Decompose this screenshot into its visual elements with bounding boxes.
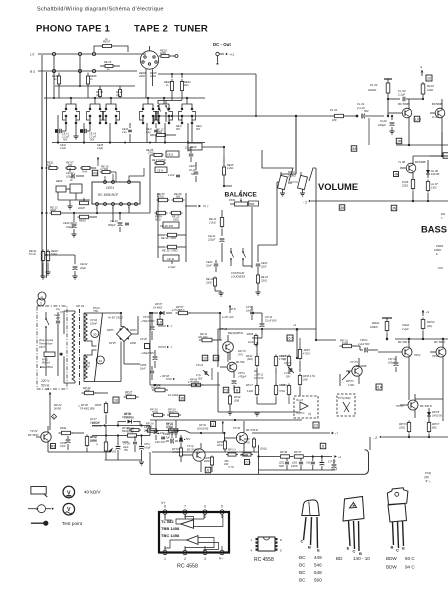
wire CE01 pin top3 <box>129 168 144 182</box>
wire bal node <box>223 185 232 187</box>
svg-text:P½0⁅: P½0⁅ <box>425 471 432 475</box>
switch S5 bracket <box>156 112 173 121</box>
svg-text:JR: JR <box>397 139 402 143</box>
node sel bus b <box>181 115 183 117</box>
svg-text:DR½5: DR½5 <box>432 410 440 414</box>
wire L2 drop <box>79 56 81 86</box>
transistor TRA2 BC560B <box>378 339 421 366</box>
label PW04 bottom <box>424 471 432 483</box>
svg-text:140 - 10: 140 - 10 <box>353 556 370 561</box>
svg-text:BC 546B: BC 546B <box>356 364 367 368</box>
svg-text:220Ω: 220Ω <box>149 75 156 78</box>
switch S5 pole A <box>158 104 164 124</box>
svg-text:CE01: CE01 <box>106 186 114 190</box>
legend DC voltmeter <box>63 486 75 498</box>
resistor PL01 <box>330 108 348 122</box>
svg-text:1300: 1300 <box>431 186 437 189</box>
capacitor CE23 <box>205 252 222 272</box>
svg-text:100kΩ: 100kΩ <box>125 393 132 396</box>
legend callout rect <box>31 487 47 498</box>
BD140 leg E <box>347 521 350 551</box>
resistor RRA2 <box>370 318 389 339</box>
capacitor CE1x <box>155 167 167 173</box>
svg-text:CE13: CE13 <box>122 128 129 131</box>
svg-text:TL 06: TL 06 <box>398 160 406 164</box>
wire vol left branch <box>258 182 279 245</box>
resistor RP13 <box>274 355 286 375</box>
arrow supply nl <box>420 65 423 76</box>
svg-text:50M: 50M <box>279 465 284 468</box>
IC bottom pins <box>163 546 224 555</box>
ground matrix <box>73 123 78 139</box>
node R1 <box>52 69 55 72</box>
wire mid col joins <box>252 338 276 404</box>
dashed drift box <box>337 394 355 416</box>
capacitor CP03 <box>83 361 91 368</box>
resistor RE43 <box>180 73 191 100</box>
node rail145 a <box>408 144 410 146</box>
wire selector stub <box>153 116 155 122</box>
wire pot wiper right <box>309 168 316 181</box>
connector BU1 DIN <box>140 46 158 98</box>
svg-text:TBB 1458: TBB 1458 <box>161 526 180 531</box>
resistor RE26 <box>86 73 97 98</box>
svg-text:VOLUME: VOLUME <box>318 181 358 192</box>
svg-text:2V½: 2V½ <box>237 352 243 356</box>
svg-text:P½½(1300): P½½(1300) <box>338 396 351 400</box>
svg-text:1N 4002: 1N 4002 <box>153 306 163 309</box>
label DP32 <box>166 429 178 435</box>
BDW leg C <box>396 522 399 553</box>
capacitor CP07 <box>250 306 254 320</box>
resistor RP26 56k <box>120 426 150 437</box>
TO92 leg B <box>308 517 311 550</box>
svg-text:10: 10 <box>427 76 431 80</box>
svg-text:RC 4558: RC 4558 <box>254 557 274 563</box>
arrow -7a <box>158 325 173 329</box>
diode 1N4002 <box>168 394 185 401</box>
resistor RP37 <box>294 450 303 458</box>
label fuse type <box>40 365 53 369</box>
label RE18 <box>149 71 157 78</box>
node reg rail a <box>154 384 156 386</box>
resistor RRA4 <box>398 421 411 438</box>
transistor TP11 <box>220 327 244 360</box>
svg-text:NF: NF <box>191 173 195 176</box>
node L3 <box>92 52 95 55</box>
svg-text:(1N½1½B): (1N½1½B) <box>166 431 178 435</box>
resistor RP31 <box>165 421 180 432</box>
svg-text:4× BY 251/2: 4× BY 251/2 <box>108 316 123 320</box>
label DP34x <box>230 308 237 311</box>
title PHONO <box>36 23 73 34</box>
svg-text:CE10 (BLK): CE10 (BLK) <box>63 221 77 225</box>
svg-text:BC 5½6 B: BC 5½6 B <box>187 447 199 451</box>
wire right angle <box>255 74 257 116</box>
label sw6 values <box>196 125 203 131</box>
wire volume feed <box>295 115 297 174</box>
svg-text:L8: L8 <box>158 320 162 324</box>
arrow rp08 <box>166 378 178 382</box>
capacitor CP37 <box>328 459 338 472</box>
box JRb <box>205 467 211 473</box>
resistor RP34x <box>167 407 181 416</box>
svg-text:△ DP 12: △ DP 12 <box>253 373 264 376</box>
transistor TP31 <box>182 443 205 472</box>
switch S3 feed <box>110 97 112 104</box>
box L8 <box>157 313 163 325</box>
wire sec top out <box>97 312 125 327</box>
pot PA02 left <box>278 172 288 196</box>
svg-text:RE03: RE03 <box>79 219 86 223</box>
node reg rail b <box>195 384 197 386</box>
svg-text:1: 1 <box>164 557 166 561</box>
resistor RE14 <box>45 206 80 215</box>
svg-text:RP1½: RP1½ <box>281 354 288 358</box>
resistor RE08 <box>80 166 96 169</box>
svg-text:C P 37: C P 37 <box>328 460 336 464</box>
svg-text:34: 34 <box>99 359 103 363</box>
svg-text:10nF: 10nF <box>140 367 146 370</box>
svg-text:546: 546 <box>314 563 322 568</box>
diode DL06 <box>426 166 440 178</box>
svg-text:+100µF 50V: +100µF 50V <box>141 352 155 355</box>
capacitor 6201a <box>279 458 289 470</box>
box 43 <box>211 421 225 433</box>
svg-text:- 2: - 2 <box>373 436 377 440</box>
svg-text:■GL250A: ■GL250A <box>40 365 53 369</box>
resistor RP19 <box>227 394 240 415</box>
node volume tap <box>295 115 297 117</box>
wire reg frame bottom <box>218 412 300 416</box>
box 18 <box>113 397 119 403</box>
resistor RE19 <box>146 148 164 157</box>
svg-text:8: 8 <box>236 388 238 392</box>
svg-text:◦RP26: ◦RP26 <box>246 333 254 336</box>
svg-text:“E” △: “E” △ <box>425 480 431 483</box>
arrow -7b <box>158 346 173 350</box>
svg-text:½P3½: ½P3½ <box>204 456 211 460</box>
label sw3 values <box>121 128 129 134</box>
wire matrix bottom bus <box>52 142 205 144</box>
svg-text:27kΩ: 27kΩ <box>147 151 154 154</box>
wire bass dash <box>438 267 443 269</box>
resistor RP41 <box>59 426 85 435</box>
svg-text:100nF: 100nF <box>83 365 91 368</box>
svg-text:PK01: PK01 <box>229 198 236 202</box>
label -2 <box>303 200 311 205</box>
label DP38b <box>124 412 134 419</box>
capacitor CP02 <box>90 318 98 325</box>
svg-text:RE 33: RE 33 <box>96 91 103 94</box>
svg-text:PL06: PL06 <box>402 180 409 184</box>
diode DRA5 <box>427 408 442 422</box>
wire fb col b <box>158 193 186 262</box>
svg-text:50V: 50V <box>198 377 203 380</box>
svg-text:RP32: RP32 <box>217 441 224 444</box>
resistor RE33 <box>99 86 102 98</box>
svg-text:560µF: 560µF <box>108 223 116 227</box>
resistor RP26c <box>122 427 141 433</box>
rail tick PL03 <box>384 78 392 80</box>
svg-text:+2: +2 <box>293 323 297 327</box>
node matrix bus b <box>83 141 85 143</box>
resistor RE21s <box>170 211 183 221</box>
svg-text:500k: 500k <box>249 203 255 206</box>
transistor TRA3 BC560B <box>430 339 446 366</box>
svg-text:1kΩ: 1kΩ <box>184 84 189 87</box>
switch S6 pole B <box>187 104 193 124</box>
svg-text:UP 01: UP 01 <box>76 304 85 308</box>
capacitor CE31 <box>163 255 179 261</box>
svg-text:CE17: CE17 <box>189 164 196 168</box>
svg-text:→: → <box>176 380 178 382</box>
svg-text:JM: JM <box>352 147 357 151</box>
svg-text:RL03: RL03 <box>427 84 434 88</box>
svg-text:23: 23 <box>314 423 318 427</box>
capacitor CP22 <box>143 420 158 440</box>
wire mains a <box>45 334 47 376</box>
label re33 <box>96 91 103 97</box>
svg-text:(⁅⁅0): (⁅⁅0) <box>424 476 429 479</box>
header caption <box>37 7 164 13</box>
transformer UP01 primary <box>70 311 75 383</box>
svg-text:TP 23: TP 23 <box>30 429 38 433</box>
svg-text:L⁅: L⁅ <box>211 421 215 426</box>
svg-text:BD: BD <box>336 556 343 561</box>
BD140 leg C <box>353 521 356 554</box>
pins CE01 top <box>104 181 131 184</box>
node matrix bus a <box>57 141 59 143</box>
BDW leg B <box>391 522 394 550</box>
svg-text:RC 4558 BCP: RC 4558 BCP <box>98 193 119 197</box>
pot PA02 right <box>298 172 308 196</box>
svg-text:100nF: 100nF <box>291 465 298 468</box>
wire selector to balance <box>202 147 224 157</box>
label DP12 <box>253 370 264 380</box>
node R2 <box>78 69 81 72</box>
fuse FF01 <box>42 352 55 365</box>
label RP08 <box>160 375 170 378</box>
svg-text:56R: 56R <box>85 390 90 393</box>
wire reg to bottom <box>150 419 192 421</box>
resistor RP34b <box>203 456 214 473</box>
wire stage link <box>396 130 448 146</box>
wire sw stub a <box>128 123 132 143</box>
wire CE01 pin top2 <box>112 174 114 182</box>
svg-text:22µF: 22µF <box>79 266 86 270</box>
svg-text:BD(140)B½0: BD(140)B½0 <box>228 331 244 335</box>
svg-text:2.2µF 50V: 2.2µF 50V <box>357 343 370 346</box>
capacitor C 22uF top <box>184 146 193 163</box>
box 23 <box>313 422 319 428</box>
svg-text:380Ω(½): 380Ω(½) <box>168 410 178 414</box>
svg-text:22µF: 22µF <box>122 446 129 449</box>
svg-text:6.2kΩ: 6.2kΩ <box>247 391 253 393</box>
label 2.2uF <box>167 265 175 269</box>
svg-text:CE 02: CE 02 <box>80 262 88 266</box>
node matrix bus c <box>109 141 111 143</box>
label TL04 <box>432 115 439 119</box>
svg-text:R3: R3 <box>51 444 56 448</box>
capacitor 52V bar <box>179 435 191 448</box>
capacitor CL01 <box>347 102 384 118</box>
svg-text:RRA2: RRA2 <box>372 321 380 325</box>
resistor RP42b <box>90 426 108 461</box>
svg-text:220µF: 220µF <box>207 239 216 242</box>
resistor RE07 <box>65 161 77 170</box>
svg-text:Y501: Y501 <box>93 311 99 313</box>
svg-text:PW04: PW04 <box>436 244 444 248</box>
wire ce31 down <box>171 261 173 264</box>
node bus98 d <box>147 97 149 99</box>
wire ce02 link <box>45 254 75 256</box>
cap 100n 63V <box>155 432 166 444</box>
arrow out4 <box>334 455 341 459</box>
svg-text:BC: BC <box>299 570 306 575</box>
svg-text:½.7µF: ½.7µF <box>163 435 170 439</box>
resistor RP26 <box>246 333 258 347</box>
svg-text:CR½1: CR½1 <box>360 338 368 342</box>
IC top pins <box>163 510 224 518</box>
resistor RP15 <box>298 338 310 372</box>
svg-text:VS: VS <box>93 171 98 175</box>
svg-text:PL 01: PL 01 <box>330 108 338 112</box>
diode DP07 <box>150 302 172 315</box>
svg-text:31A: 31A <box>376 385 383 389</box>
capacitor CRA2a <box>395 323 448 339</box>
diode DP38c <box>118 413 140 426</box>
svg-text:C: C <box>353 549 356 554</box>
switch S4 pole A <box>142 104 148 124</box>
capacitor CP21 <box>166 420 178 438</box>
svg-text:270Ω: 270Ω <box>243 442 250 444</box>
wire fb col a <box>149 163 151 213</box>
svg-text:CP 11: CP 11 <box>265 315 273 319</box>
svg-text:6: 6 <box>204 505 206 509</box>
switch S6 bracket <box>179 112 196 121</box>
svg-text:+3: +3 <box>46 387 50 391</box>
wire rp row <box>240 454 248 456</box>
svg-text:22kΩ: 22kΩ <box>216 445 223 447</box>
svg-text:T3: T3 <box>224 388 228 392</box>
switch S6 feed <box>186 97 188 104</box>
svg-text:- 2: - 2 <box>303 201 307 205</box>
svg-text:12kΩ: 12kΩ <box>427 88 433 92</box>
svg-text:CP 03: CP 03 <box>83 361 91 365</box>
wire bus98 left drop <box>43 97 45 99</box>
node left bus a <box>41 167 43 169</box>
svg-text:16.5: 16.5 <box>287 336 294 340</box>
svg-text:RP 37: RP 37 <box>294 450 302 454</box>
selector lever <box>95 313 103 381</box>
capacitor CE32 box <box>160 222 179 228</box>
resistor RE23 <box>205 277 217 288</box>
label sw5 values <box>176 125 183 131</box>
svg-text:Schaltbild/Wiring diagram/Sché: Schaltbild/Wiring diagram/Schéma d’élect… <box>37 7 164 13</box>
wire bottom row bus <box>192 419 302 421</box>
svg-text:220Ω: 220Ω <box>401 184 408 187</box>
switch S4 feed <box>147 97 149 104</box>
resistor RE03b <box>78 215 98 222</box>
switch S1 feed <box>70 97 72 104</box>
node m2 rail a <box>412 200 414 202</box>
svg-text:DP0½: DP0½ <box>130 328 137 332</box>
node bal tap <box>223 146 225 148</box>
marker circle 1b <box>37 298 45 306</box>
label top psu texture <box>93 307 101 313</box>
svg-text:R 0: R 0 <box>30 70 35 74</box>
svg-text:BC 546 B: BC 546 B <box>420 404 432 408</box>
svg-text:RR½7: RR½7 <box>432 422 440 426</box>
svg-text:8: 8 <box>164 505 166 509</box>
wire L1 drop <box>53 56 55 98</box>
svg-text:PAL: PAL <box>288 182 293 185</box>
wire band mid2 <box>150 426 225 436</box>
trim cluster <box>56 179 90 200</box>
svg-text:CONTOUR: CONTOUR <box>231 271 244 275</box>
wire bottom left drop <box>149 452 151 474</box>
svg-text:RC 4558: RC 4558 <box>177 564 198 570</box>
label sw1 values <box>59 144 67 150</box>
wire CE01 drop1 <box>96 206 98 214</box>
wire bridge out right <box>132 316 139 334</box>
switch S3 bracket <box>103 112 120 121</box>
svg-text:BC: BC <box>299 563 306 568</box>
resistor RP17 <box>246 384 259 405</box>
capacitor CE10 <box>63 212 77 237</box>
svg-text:TAPE 2: TAPE 2 <box>134 23 168 34</box>
svg-text:50V: 50V <box>364 109 369 113</box>
svg-text:100Ω: 100Ω <box>173 219 179 222</box>
svg-text:CRA2: CRA2 <box>402 323 410 327</box>
box JL <box>396 138 402 144</box>
wire psu mid <box>49 398 51 430</box>
switch S6 pole A <box>181 104 187 124</box>
svg-text:(2Ω 2W): (2Ω 2W) <box>198 336 208 339</box>
ground left buses <box>40 263 50 279</box>
svg-text:CE 31: CE 31 <box>167 257 175 261</box>
svg-text:56kΩ: 56kΩ <box>146 425 152 428</box>
wire DC-Out stub <box>217 56 219 62</box>
IC text TBC1458 <box>161 533 180 538</box>
svg-text:10Ω: 10Ω <box>224 464 229 466</box>
svg-text:2.2µ: 2.2µ <box>145 132 151 134</box>
svg-text:◦RP15: ◦RP15 <box>303 349 310 352</box>
resistor RE22 <box>208 210 224 236</box>
svg-text:RE 21: RE 21 <box>209 217 217 221</box>
resistor RE02 <box>46 249 58 263</box>
svg-text:TP 3⁅: TP 3⁅ <box>187 444 194 448</box>
switch S1 pole B <box>71 104 77 124</box>
box 31A <box>376 384 383 390</box>
svg-text:(1N⁅⁅): (1N⁅⁅) <box>260 448 267 451</box>
box VS <box>92 170 98 176</box>
switch mains <box>45 312 49 334</box>
label BASS <box>421 224 447 235</box>
wire selector out bus 2 <box>256 115 331 117</box>
capacitor out ecap <box>320 457 325 471</box>
resistor RP39 <box>224 453 253 469</box>
legend text 40k <box>84 490 101 495</box>
trim pot RE13 <box>77 198 89 210</box>
svg-text:10 kΩ: 10 kΩ <box>248 341 255 344</box>
BDW leg E <box>402 521 405 551</box>
svg-text:RP 23: RP 23 <box>54 403 62 407</box>
label reg texture2 <box>246 306 253 312</box>
svg-text:68Ω: 68Ω <box>432 426 437 429</box>
wire CE01 drop3 <box>128 206 130 214</box>
